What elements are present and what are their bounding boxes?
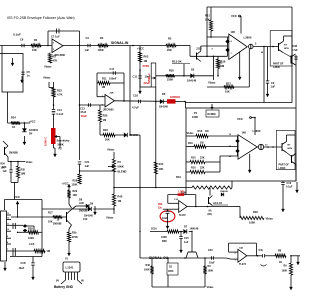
svg-text:1M: 1M	[47, 250, 50, 253]
svg-text:100K: 100K	[282, 270, 288, 273]
svg-text:10M: 10M	[21, 173, 26, 176]
svg-text:1n: 1n	[27, 74, 30, 78]
svg-text:Vbias: Vbias	[187, 131, 194, 135]
svg-text:47K: 47K	[53, 59, 58, 63]
svg-text:Vbias: Vbias	[26, 160, 33, 164]
svg-text:Vbias: Vbias	[44, 65, 52, 69]
svg-text:C20: C20	[208, 249, 213, 252]
svg-text:L3-B: L3-B	[29, 243, 35, 246]
svg-text:R3b: R3b	[158, 204, 163, 206]
svg-text:2N5088: 2N5088	[79, 210, 88, 213]
svg-text:1M: 1M	[200, 142, 203, 145]
svg-text:1K: 1K	[279, 261, 282, 264]
svg-text:1E16: 1E16	[151, 228, 157, 231]
svg-text:VCC: VCC	[231, 14, 237, 18]
svg-text:0.1uF: 0.1uF	[286, 186, 293, 189]
svg-text:R38: R38	[162, 240, 167, 243]
svg-text:270K: 270K	[143, 64, 150, 68]
svg-text:C17: C17	[110, 67, 115, 71]
svg-text:Vbias: Vbias	[266, 217, 274, 221]
svg-text:LED: LED	[79, 202, 84, 205]
svg-text:+VCC: +VCC	[137, 47, 144, 51]
svg-text:BLEND: BLEND	[118, 170, 127, 174]
svg-text:100nF: 100nF	[109, 77, 117, 81]
svg-text:1N4148: 1N4148	[220, 190, 228, 193]
svg-text:C7 1uF: C7 1uF	[51, 35, 60, 39]
svg-text:+VCC: +VCC	[62, 182, 69, 186]
svg-text:TL072: TL072	[239, 263, 247, 266]
svg-text:500K: 500K	[118, 165, 124, 169]
svg-text:R21: R21	[205, 14, 210, 18]
svg-text:0.1uF: 0.1uF	[13, 33, 21, 37]
svg-text:C1D: C1D	[21, 262, 26, 265]
svg-text:R12: R12	[226, 82, 231, 86]
svg-text:R16: R16	[191, 167, 196, 170]
svg-text:R30: R30	[253, 210, 258, 214]
svg-text:1M: 1M	[144, 59, 148, 63]
svg-text:R17: R17	[48, 212, 53, 215]
svg-text:R13-5K: R13-5K	[172, 60, 182, 64]
svg-text:+VCC: +VCC	[29, 120, 36, 124]
svg-text:P2: P2	[59, 147, 63, 151]
svg-text:10K: 10K	[1, 168, 6, 170]
svg-text:100K: 100K	[161, 236, 167, 239]
svg-text:1uF: 1uF	[271, 85, 276, 89]
svg-text:10uF: 10uF	[19, 267, 25, 270]
svg-text:L3600: L3600	[279, 167, 286, 170]
svg-text:AC1-04: AC1-04	[213, 201, 222, 205]
svg-text:100K: 100K	[144, 269, 150, 272]
svg-text:220K: 220K	[167, 78, 173, 82]
svg-text:1uF: 1uF	[184, 241, 189, 244]
svg-text:R20: R20	[169, 69, 174, 73]
svg-text:10uF: 10uF	[81, 114, 88, 118]
svg-text:1N4001: 1N4001	[29, 128, 39, 132]
svg-text:1M: 1M	[102, 85, 106, 89]
svg-text:R22: R22	[57, 89, 62, 93]
svg-text:R40: R40	[118, 195, 123, 199]
svg-text:1K: 1K	[12, 125, 15, 129]
svg-text:C14: C14	[57, 108, 62, 112]
svg-text:L1341: L1341	[66, 266, 74, 270]
svg-text:D6: D6	[162, 92, 166, 96]
svg-text:14B: 14B	[242, 132, 247, 135]
svg-text:Vbias: Vbias	[208, 81, 216, 85]
svg-text:RANGE: RANGE	[208, 113, 217, 116]
svg-text:L3600: L3600	[253, 129, 261, 133]
svg-text:22K: 22K	[200, 157, 205, 160]
svg-text:D4: D4	[29, 132, 33, 136]
svg-text:C1B: C1B	[293, 45, 298, 48]
svg-text:R26: R26	[103, 115, 108, 118]
svg-text:100K: 100K	[249, 221, 255, 225]
svg-text:Vbias: Vbias	[43, 76, 51, 80]
svg-text:R24: R24	[11, 116, 16, 120]
svg-text:C11: C11	[133, 75, 138, 79]
svg-text:P1: P1	[194, 111, 198, 115]
svg-text:P3: P3	[118, 160, 122, 164]
svg-text:Battery GND: Battery GND	[54, 285, 74, 289]
svg-text:20K: 20K	[105, 138, 110, 142]
svg-text:500K: 500K	[58, 143, 64, 147]
svg-text:R33: R33	[103, 128, 108, 132]
svg-text:R1: R1	[34, 38, 38, 42]
svg-text:10K: 10K	[225, 90, 230, 94]
svg-text:LDR: LDR	[179, 191, 184, 194]
svg-text:100K: 100K	[192, 115, 198, 119]
svg-text:C19: C19	[83, 218, 88, 221]
svg-text:22R: 22R	[110, 93, 114, 95]
svg-text:C18: C18	[133, 94, 138, 98]
svg-text:14B: 14B	[231, 31, 236, 34]
svg-text:7: 7	[7, 249, 8, 251]
svg-text:1N4148: 1N4148	[190, 228, 199, 231]
svg-text:VCC: VCC	[237, 117, 243, 121]
svg-text:1M: 1M	[103, 119, 106, 122]
svg-text:R46: R46	[146, 264, 151, 267]
svg-text:1N5818: 1N5818	[170, 95, 180, 99]
svg-text:13: 13	[7, 213, 9, 215]
svg-text:10K: 10K	[159, 167, 164, 171]
svg-text:1uF: 1uF	[85, 48, 90, 52]
svg-text:250K-C: 250K-C	[148, 73, 151, 82]
svg-text:10K: 10K	[73, 194, 78, 197]
svg-text:1uF: 1uF	[85, 164, 90, 168]
svg-text:R11: R11	[102, 77, 107, 81]
svg-text:1M: 1M	[118, 199, 122, 203]
svg-text:100K: 100K	[28, 237, 34, 240]
svg-text:1N4148: 1N4148	[159, 106, 168, 109]
svg-text:NPN: NPN	[288, 148, 293, 150]
svg-text:C15: C15	[184, 237, 189, 240]
svg-text:R19: R19	[188, 142, 193, 145]
svg-text:12: 12	[7, 218, 9, 220]
svg-text:R3b: R3b	[72, 232, 77, 235]
svg-text:L3600: L3600	[273, 66, 280, 69]
svg-text:C13: C13	[80, 107, 85, 111]
svg-text:22K: 22K	[205, 18, 210, 22]
svg-text:Sensitivity: Sensitivity	[57, 139, 71, 143]
svg-text:1N4148: 1N4148	[129, 134, 138, 137]
svg-text:22K: 22K	[200, 167, 205, 170]
svg-text:8: 8	[7, 242, 8, 244]
svg-text:100K-C: 100K-C	[44, 137, 48, 146]
svg-text:22n: 22n	[158, 207, 163, 209]
svg-text:D2: D2	[191, 68, 195, 72]
svg-text:R28: R28	[73, 180, 78, 183]
svg-text:Vbias: Vbias	[106, 216, 114, 220]
svg-text:TL072: TL072	[179, 214, 187, 217]
svg-text:R34: R34	[1, 163, 6, 166]
svg-text:100K: 100K	[208, 270, 214, 273]
svg-text:4.7uF: 4.7uF	[132, 106, 139, 110]
svg-text:20K: 20K	[167, 48, 172, 52]
svg-text:L3600: L3600	[244, 36, 252, 40]
svg-text:4553: 4553	[168, 270, 174, 273]
svg-text:10K: 10K	[32, 48, 37, 52]
svg-text:R03: R03	[144, 55, 149, 59]
svg-text:100K: 100K	[98, 48, 104, 52]
svg-text:270K: 270K	[72, 236, 78, 239]
svg-text:9: 9	[7, 236, 8, 238]
svg-text:1M: 1M	[221, 64, 225, 68]
svg-text:4.7uF: 4.7uF	[292, 49, 299, 52]
svg-text:4.7K: 4.7K	[57, 93, 63, 97]
svg-text:(95): (95)	[208, 213, 212, 216]
svg-text:IN: IN	[81, 280, 84, 283]
svg-text:SIGNAL-IN: SIGNAL-IN	[111, 41, 129, 45]
svg-text:0.1uF: 0.1uF	[57, 112, 64, 116]
svg-text:2N5088: 2N5088	[53, 223, 62, 226]
svg-text:14A: 14A	[239, 247, 243, 250]
svg-text:120K: 120K	[72, 184, 78, 187]
svg-text:11: 11	[7, 223, 9, 225]
svg-text:J113: J113	[196, 47, 202, 51]
svg-text:C1b: C1b	[259, 249, 264, 252]
svg-text:NPN: NPN	[284, 48, 289, 50]
svg-text:C5: C5	[27, 70, 31, 74]
svg-text:JRC4560: JRC4560	[103, 109, 114, 112]
svg-text:C21: C21	[85, 160, 90, 164]
svg-text:R29: R29	[73, 190, 78, 193]
svg-text:R35: R35	[21, 169, 26, 172]
svg-text:R19: R19	[176, 175, 181, 179]
svg-text:R4: R4	[100, 36, 104, 40]
svg-text:1M: 1M	[205, 130, 208, 133]
svg-text:Vbias: Vbias	[207, 285, 214, 289]
svg-text:2N5088: 2N5088	[9, 152, 18, 155]
svg-text:R5: R5	[168, 37, 172, 41]
svg-text:R28: R28	[28, 228, 33, 231]
svg-text:R14: R14	[159, 162, 164, 166]
svg-text:1D: 1D	[169, 266, 172, 269]
svg-text:C3: C3	[86, 36, 90, 40]
svg-text:10: 10	[7, 229, 9, 231]
svg-text:C6: C6	[20, 38, 24, 42]
svg-text:R2: R2	[53, 55, 57, 59]
svg-text:R18: R18	[198, 130, 203, 133]
svg-text:1uF: 1uF	[3, 170, 8, 173]
svg-text:Vbias: Vbias	[107, 148, 115, 152]
svg-text:C9: C9	[271, 81, 275, 85]
svg-text:1N4148: 1N4148	[187, 79, 197, 83]
svg-text:9V: 9V	[56, 280, 59, 283]
svg-text:R15: R15	[191, 157, 196, 160]
svg-text:ISS FO-2SB Envelope Follower (: ISS FO-2SB Envelope Follower (Auto Wah)	[7, 16, 75, 20]
